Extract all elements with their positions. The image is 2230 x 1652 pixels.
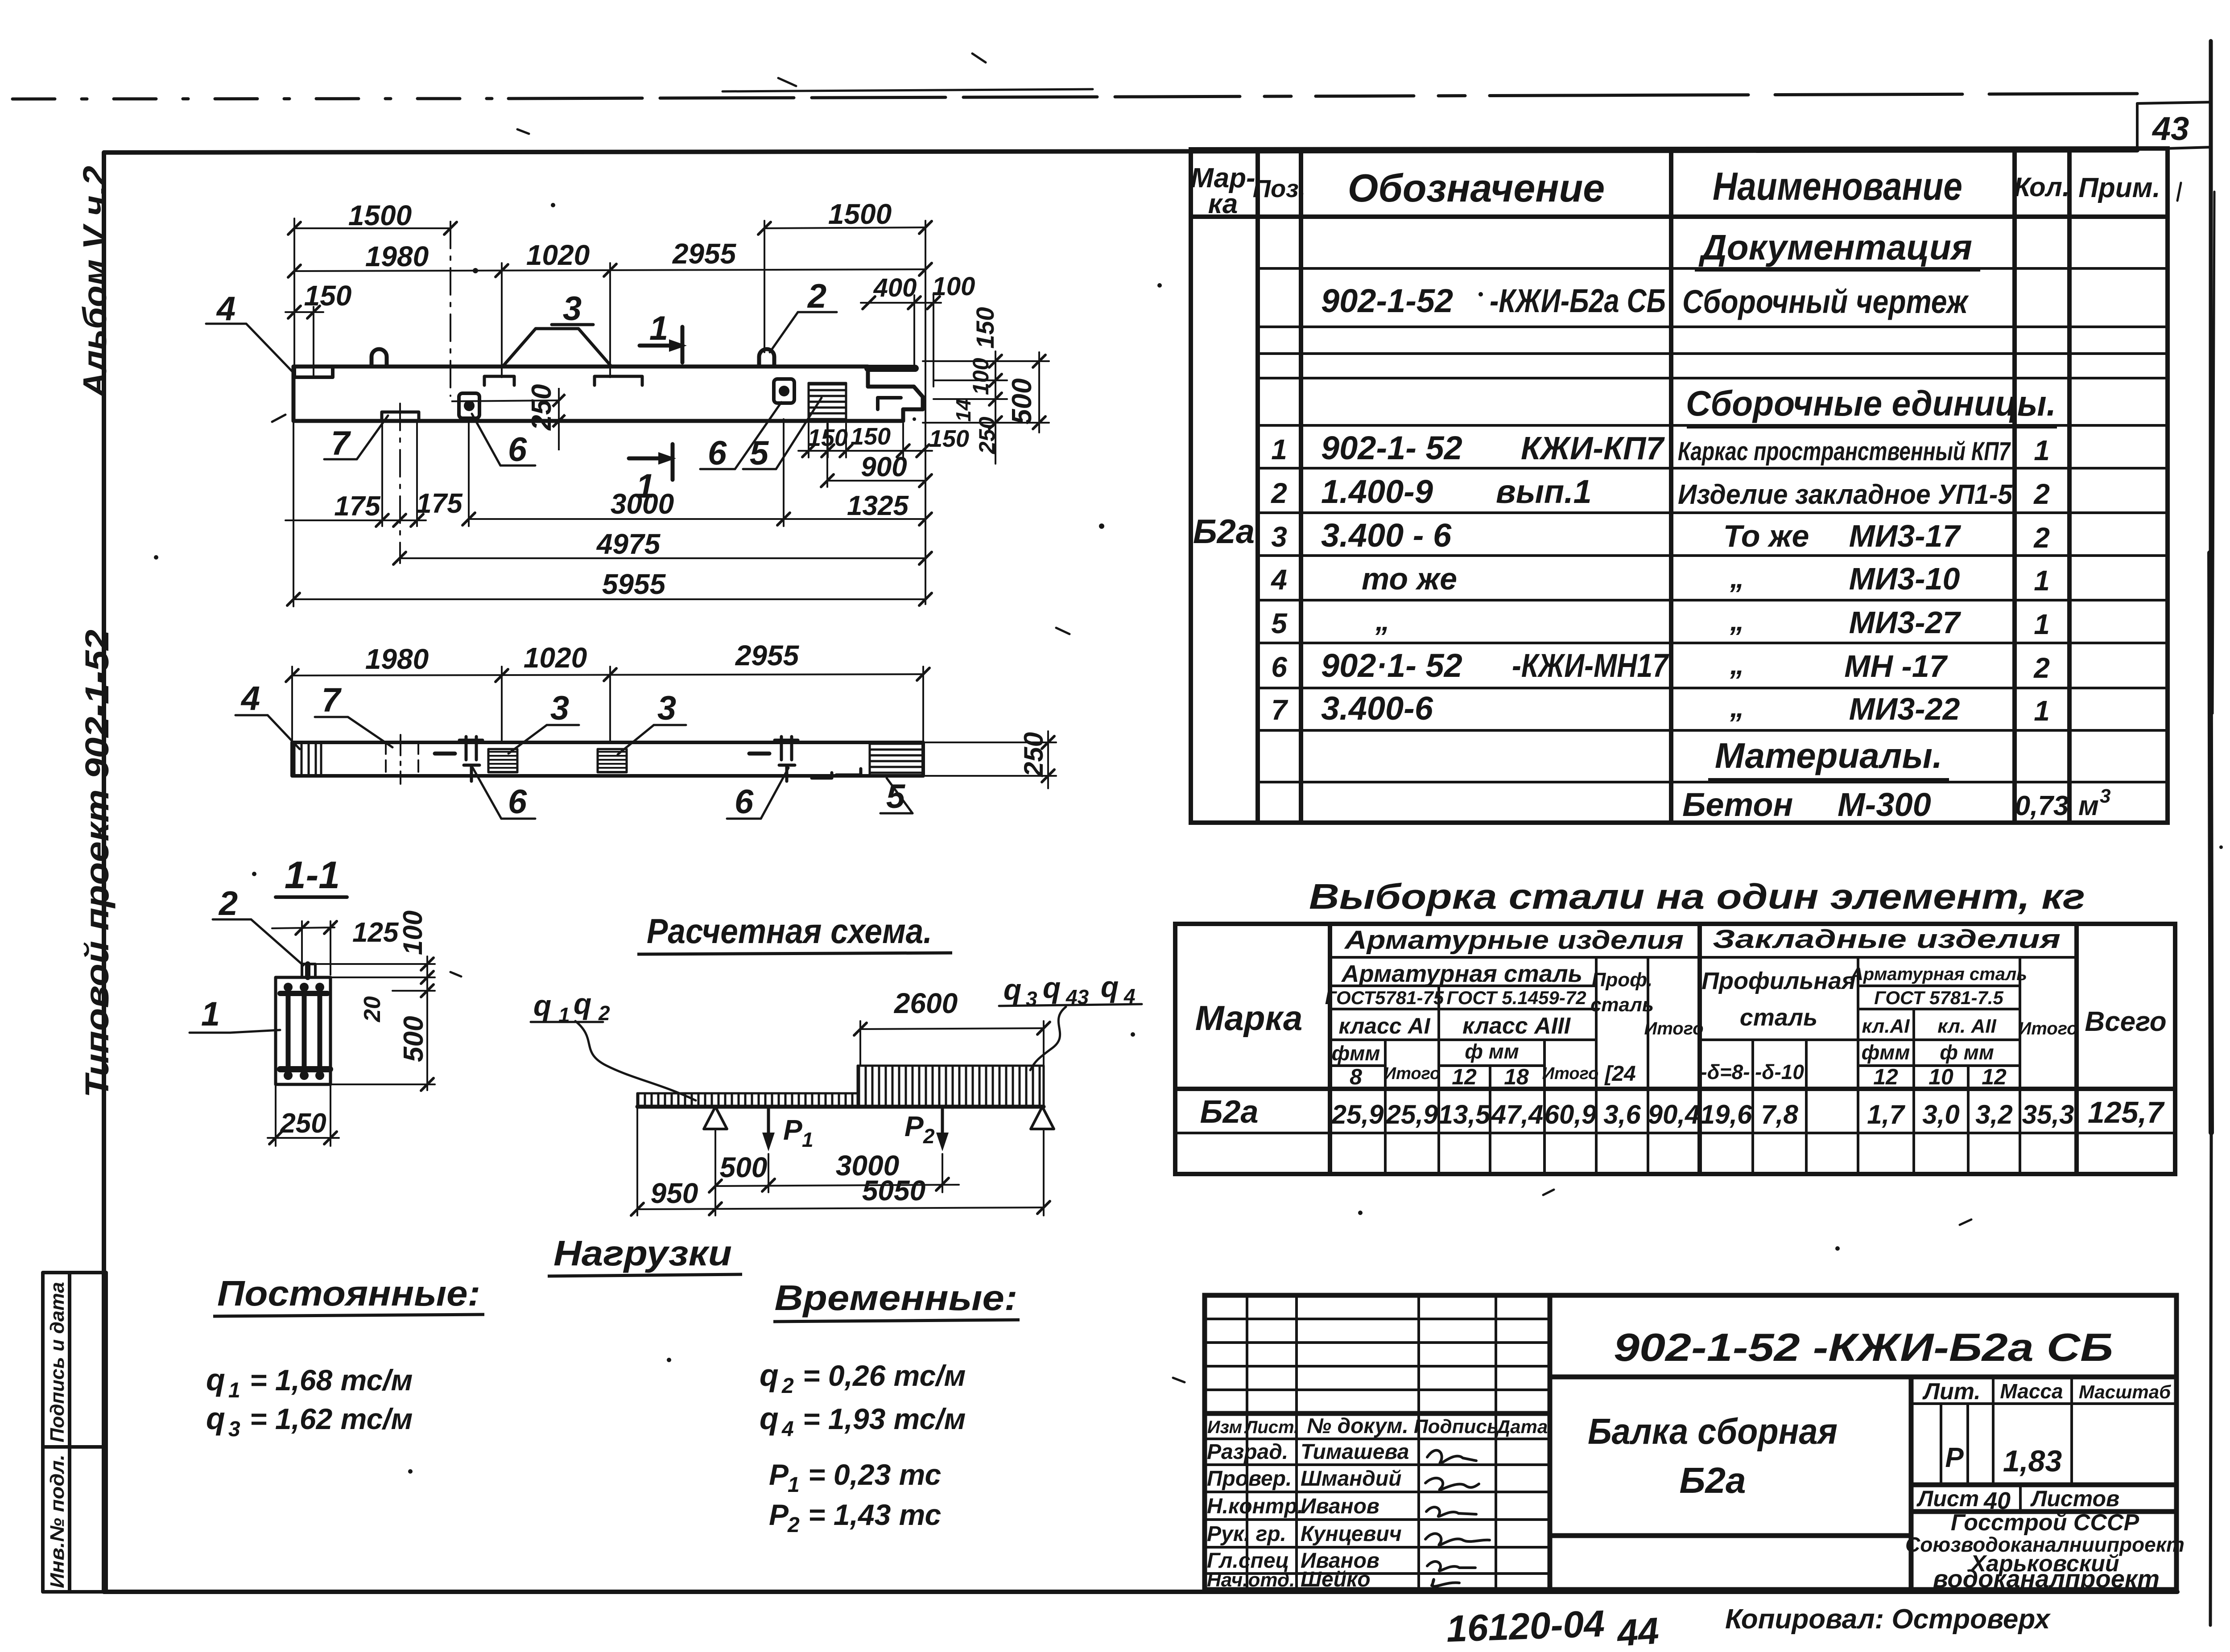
svg-text:1: 1 bbox=[802, 1128, 814, 1151]
svg-text:5: 5 bbox=[1271, 607, 1288, 639]
svg-text:1: 1 bbox=[2034, 695, 2050, 727]
svg-text:1: 1 bbox=[2034, 434, 2050, 466]
svg-text:1.400-9: 1.400-9 bbox=[1321, 473, 1433, 510]
svg-text:500: 500 bbox=[398, 1016, 429, 1062]
svg-text:Закладные изделия: Закладные изделия bbox=[1713, 925, 2061, 954]
svg-text:ГОСТ 5781-7.5: ГОСТ 5781-7.5 bbox=[1874, 987, 2003, 1008]
svg-text:= 0,23 тс: = 0,23 тс bbox=[808, 1458, 941, 1491]
dim chain 1980 1020 2955 bbox=[294, 269, 925, 271]
plate item 5 hatched (right end) bbox=[870, 742, 923, 776]
svg-text:кл.АІ: кл.АІ bbox=[1862, 1015, 1910, 1037]
svg-text:Нач.отд.: Нач.отд. bbox=[1207, 1569, 1295, 1591]
top fold dash-dot line bbox=[12, 89, 2137, 99]
svg-text:Арматурные изделия: Арматурные изделия bbox=[1344, 926, 1684, 955]
svg-text:q: q bbox=[1003, 973, 1021, 1006]
svg-text:4: 4 bbox=[240, 680, 260, 717]
section mark 1 (bottom) bbox=[629, 444, 673, 480]
small marks near item6 left bbox=[435, 752, 455, 756]
svg-text:2: 2 bbox=[781, 1374, 794, 1398]
svg-text:2: 2 bbox=[598, 1001, 610, 1025]
lifting loop left bbox=[372, 349, 387, 367]
svg-text:1: 1 bbox=[1271, 433, 1287, 466]
svg-text:2: 2 bbox=[2033, 478, 2050, 510]
svg-text:-КЖИ-Б2а СБ: -КЖИ-Б2а СБ bbox=[1490, 282, 1666, 319]
svg-text:1-1: 1-1 bbox=[285, 854, 340, 897]
svg-text:q: q bbox=[206, 1401, 225, 1436]
svg-text:500: 500 bbox=[720, 1151, 768, 1183]
plan 250 dim right bbox=[925, 731, 1056, 788]
svg-text:q: q bbox=[206, 1362, 225, 1397]
svg-text:4: 4 bbox=[1270, 564, 1287, 596]
item 6 symbol left bbox=[459, 737, 483, 781]
dims 500 3000 bbox=[715, 1131, 959, 1215]
svg-text:150: 150 bbox=[971, 307, 999, 349]
svg-text:Временные:: Временные: bbox=[775, 1278, 1018, 1318]
svg-text:Профильная: Профильная bbox=[1701, 968, 1856, 994]
leader 6 left bbox=[472, 414, 535, 466]
svg-text:Рук. гр.: Рук. гр. bbox=[1207, 1522, 1286, 1546]
svg-text:то же: то же bbox=[1362, 561, 1457, 596]
svg-text:Кол.: Кол. bbox=[2014, 172, 2069, 202]
svg-text:12: 12 bbox=[1452, 1064, 1477, 1089]
svg-text:175: 175 bbox=[334, 491, 381, 522]
dim ticks bottom bbox=[287, 474, 932, 606]
svg-text:МИ3-17: МИ3-17 bbox=[1849, 519, 1962, 553]
distributed load band right (q3 q4) bbox=[858, 1066, 1044, 1107]
svg-text:Постоянные:: Постоянные: bbox=[217, 1273, 480, 1313]
svg-text:класс АІ: класс АІ bbox=[1338, 1013, 1430, 1038]
svg-text:900: 900 bbox=[861, 452, 907, 482]
svg-text:-δ=8-: -δ=8- bbox=[1700, 1060, 1750, 1083]
svg-text:3,2: 3,2 bbox=[1975, 1100, 2012, 1129]
svg-text:Арматурная сталь: Арматурная сталь bbox=[1341, 960, 1582, 987]
leader 6 right bbox=[700, 402, 781, 469]
svg-text:-КЖИ-МН17: -КЖИ-МН17 bbox=[1512, 647, 1669, 684]
svg-text:100: 100 bbox=[398, 910, 428, 955]
leader 4 bbox=[206, 324, 294, 374]
svg-text:902-1-52 -КЖИ-Б2а СБ: 902-1-52 -КЖИ-Б2а СБ bbox=[1614, 1325, 2113, 1369]
svg-text:М-300: М-300 bbox=[1838, 786, 1931, 823]
svg-text:5: 5 bbox=[750, 434, 769, 472]
svg-text:P: P bbox=[904, 1110, 924, 1142]
svg-text:1: 1 bbox=[201, 995, 220, 1033]
svg-text:q: q bbox=[760, 1401, 779, 1436]
svg-text:0,73: 0,73 bbox=[2015, 791, 2069, 821]
svg-text:43: 43 bbox=[1065, 985, 1089, 1009]
dimension lines, bottom bbox=[285, 419, 925, 606]
svg-text:18: 18 bbox=[1504, 1064, 1529, 1089]
svg-text:„: „ bbox=[1375, 605, 1390, 637]
svg-text:4: 4 bbox=[216, 290, 235, 328]
svg-text:3: 3 bbox=[2100, 785, 2110, 807]
svg-text:Б2а: Б2а bbox=[1679, 1460, 1746, 1501]
svg-text:„: „ bbox=[1730, 605, 1744, 637]
svg-text:Расчетная схема.: Расчетная схема. bbox=[647, 911, 932, 951]
svg-text:100: 100 bbox=[968, 358, 993, 395]
svg-text:3: 3 bbox=[657, 689, 676, 727]
dims 950 5050 bbox=[637, 1107, 1044, 1215]
svg-text:400: 400 bbox=[873, 273, 917, 302]
anchor washer item 6 right bbox=[774, 379, 794, 403]
svg-text:1500: 1500 bbox=[348, 199, 412, 231]
svg-text:q: q bbox=[760, 1358, 779, 1392]
svg-text:1: 1 bbox=[2034, 608, 2050, 640]
dim 400 100 right bbox=[861, 302, 941, 304]
load P2 arrow bbox=[941, 1107, 944, 1144]
svg-text:сталь: сталь bbox=[1590, 994, 1654, 1016]
svg-text:1020: 1020 bbox=[524, 642, 587, 674]
svg-text:47,4: 47,4 bbox=[1491, 1100, 1544, 1129]
plate marks right of item5: small С plate bbox=[812, 773, 832, 778]
svg-text:Госстрой СССР: Госстрой СССР bbox=[1951, 1510, 2139, 1536]
anchor washer item 6 left bbox=[459, 393, 479, 418]
svg-text:МН -17: МН -17 bbox=[1844, 649, 1948, 684]
svg-text:1020: 1020 bbox=[526, 239, 590, 271]
svg-text:Кунцевич: Кунцевич bbox=[1301, 1522, 1402, 1546]
svg-text:Наименование: Наименование bbox=[1713, 164, 1962, 208]
svg-text:902-1- 52: 902-1- 52 bbox=[1321, 429, 1462, 466]
extension lines down bbox=[293, 421, 294, 606]
signatures (squiggles) bbox=[1425, 1450, 1490, 1586]
svg-text:-δ-10: -δ-10 bbox=[1755, 1060, 1804, 1083]
svg-text:6: 6 bbox=[508, 431, 527, 469]
svg-text:Документация: Документация bbox=[1698, 227, 1972, 267]
leader 2 section bbox=[213, 919, 303, 965]
svg-text:Б2а: Б2а bbox=[1193, 513, 1255, 551]
svg-text:Н.контр.: Н.контр. bbox=[1207, 1495, 1303, 1518]
svg-text:„: „ bbox=[1730, 648, 1744, 680]
svg-text:2955: 2955 bbox=[672, 238, 737, 270]
svg-text:10: 10 bbox=[1929, 1064, 1953, 1089]
svg-text:902-1-52: 902-1-52 bbox=[1321, 282, 1453, 319]
svg-text:Тимашева: Тимашева bbox=[1301, 1440, 1409, 1464]
svg-text:ка: ка bbox=[1208, 189, 1238, 219]
svg-text:3: 3 bbox=[1271, 521, 1287, 553]
svg-text:8: 8 bbox=[1350, 1064, 1362, 1089]
leader 2 bbox=[770, 312, 837, 352]
page right border (rough) bbox=[2210, 41, 2214, 1625]
svg-text:19,6: 19,6 bbox=[1700, 1100, 1752, 1129]
left margin table (Подпись и дата / Инв.№ подл.) bbox=[43, 1273, 106, 1592]
svg-text:q: q bbox=[1043, 971, 1061, 1004]
section title underline bbox=[276, 895, 347, 899]
svg-text:13,5: 13,5 bbox=[1438, 1100, 1491, 1129]
svg-text:150: 150 bbox=[929, 425, 969, 452]
svg-text:5955: 5955 bbox=[602, 568, 666, 600]
svg-text:1,83: 1,83 bbox=[2003, 1444, 2062, 1478]
svg-text:Материалы.: Материалы. bbox=[1715, 736, 1942, 775]
svg-text:Итого: Итого bbox=[1542, 1064, 1598, 1083]
dim 150 left bbox=[285, 311, 323, 313]
svg-text:1: 1 bbox=[636, 467, 655, 505]
svg-text:ГОСТ5781-75: ГОСТ5781-75 bbox=[1325, 987, 1444, 1008]
item 3 hatched plate right bbox=[598, 749, 627, 772]
item 6 symbol right bbox=[775, 737, 798, 781]
leader 4 plan bbox=[235, 715, 300, 749]
dim 125 bbox=[272, 921, 334, 975]
svg-text:2955: 2955 bbox=[735, 639, 800, 672]
svg-text:3: 3 bbox=[550, 689, 569, 727]
svg-text:ГОСТ 5.1459-72: ГОСТ 5.1459-72 bbox=[1446, 987, 1586, 1008]
leader 7 plan bbox=[315, 717, 392, 747]
distributed load band left (q1 q2) bbox=[637, 1093, 858, 1107]
svg-text:35,3: 35,3 bbox=[2022, 1100, 2074, 1129]
svg-text:2: 2 bbox=[218, 885, 238, 923]
svg-text:Балка сборная: Балка сборная bbox=[1588, 1411, 1838, 1452]
svg-text:Лист.: Лист. bbox=[1244, 1417, 1299, 1437]
svg-text:Выборка стали на один элем: Выборка стали на один элемент, кг bbox=[1309, 877, 2085, 916]
svg-text:5050: 5050 bbox=[862, 1174, 925, 1207]
svg-text:= 1,68 тс/м: = 1,68 тс/м bbox=[250, 1364, 413, 1397]
right vertical dim chain 100 20 500 bbox=[308, 956, 435, 1090]
load P1 arrow bbox=[767, 1107, 770, 1144]
svg-text:150: 150 bbox=[304, 280, 352, 312]
dim 1500 right bbox=[764, 227, 925, 228]
svg-text:3,6: 3,6 bbox=[1603, 1100, 1641, 1129]
svg-text:Типовой проект 902-1-52: Типовой проект 902-1-52 bbox=[78, 630, 116, 1098]
embedded plate item 4 (left end) bbox=[294, 367, 333, 377]
svg-text:250: 250 bbox=[975, 416, 999, 454]
beam elevation outline bbox=[293, 367, 923, 421]
scan speckles bbox=[154, 203, 2223, 1474]
svg-text:950: 950 bbox=[651, 1177, 698, 1209]
svg-text:Шейко: Шейко bbox=[1301, 1568, 1371, 1591]
svg-text:= 1,93 тс/м: = 1,93 тс/м bbox=[803, 1402, 966, 1435]
svg-text:Инв.№ подл.: Инв.№ подл. bbox=[46, 1454, 68, 1588]
svg-text:7: 7 bbox=[1271, 694, 1288, 726]
svg-text:м: м bbox=[2078, 791, 2099, 821]
svg-text:МИ3-22: МИ3-22 bbox=[1849, 692, 1960, 726]
lifting loop right bbox=[759, 349, 774, 367]
svg-text:МИ3-10: МИ3-10 bbox=[1849, 561, 1960, 596]
svg-text:1: 1 bbox=[649, 309, 668, 347]
section mark 1 (top) bbox=[640, 327, 682, 363]
extension lines bbox=[293, 218, 295, 367]
svg-text:Сборочный чертеж: Сборочный чертеж bbox=[1682, 283, 1969, 320]
q1 q2 leader squiggle bbox=[575, 1021, 696, 1100]
svg-text:Масштаб: Масштаб bbox=[2079, 1381, 2171, 1402]
svg-text:90,4: 90,4 bbox=[1648, 1100, 1700, 1129]
rebar cage: vertical bars bbox=[288, 985, 320, 1075]
svg-text:фмм: фмм bbox=[1862, 1041, 1910, 1064]
svg-text:Итого: Итого bbox=[1384, 1064, 1440, 1083]
svg-text:Арматурная сталь: Арматурная сталь bbox=[1850, 964, 2027, 984]
svg-text:6: 6 bbox=[708, 434, 727, 472]
svg-text:3,0: 3,0 bbox=[1922, 1100, 1959, 1129]
centre dash-dot line of item 7 bbox=[399, 404, 401, 563]
leader 3 plan right bbox=[618, 725, 686, 754]
svg-text:кл. АІІ: кл. АІІ bbox=[1937, 1015, 1996, 1037]
svg-text:Иванов: Иванов bbox=[1301, 1495, 1379, 1518]
svg-text:Альбом V ч.2: Альбом V ч.2 bbox=[76, 166, 113, 399]
spec table grid bbox=[1191, 148, 2168, 823]
svg-text:водоканалпроект: водоканалпроект bbox=[1933, 1565, 2160, 1593]
svg-text:14: 14 bbox=[952, 399, 975, 422]
svg-text:= 0,26 тс/м: = 0,26 тс/м bbox=[803, 1359, 966, 1392]
svg-text:q: q bbox=[1101, 970, 1119, 1003]
svg-text:Б2а: Б2а bbox=[1200, 1094, 1258, 1130]
item 7 dash-dot centre line bbox=[400, 735, 401, 784]
svg-text:1,7: 1,7 bbox=[1867, 1100, 1905, 1129]
svg-text:4: 4 bbox=[781, 1417, 794, 1441]
dim 150 150 under hatched plate and 150 at right notch bbox=[798, 424, 932, 457]
svg-text:6: 6 bbox=[1271, 651, 1287, 683]
svg-text:МИ3-27: МИ3-27 bbox=[1849, 605, 1962, 640]
svg-text:60,9: 60,9 bbox=[1544, 1100, 1597, 1129]
svg-text:вып.1: вып.1 bbox=[1496, 473, 1592, 510]
svg-text:3: 3 bbox=[228, 1417, 240, 1441]
svg-text:Итого: Итого bbox=[1644, 1019, 1703, 1038]
leader 3 plan left bbox=[508, 725, 579, 754]
leader 6 plan left bbox=[473, 768, 535, 819]
svg-text:5: 5 bbox=[886, 778, 906, 816]
svg-text:КЖИ-КП7: КЖИ-КП7 bbox=[1521, 431, 1665, 466]
svg-text:Бетон: Бетон bbox=[1682, 786, 1793, 823]
svg-text:ф мм: ф мм bbox=[1940, 1041, 1994, 1064]
svg-text:Разрад.: Разрад. bbox=[1207, 1440, 1288, 1464]
svg-text:2: 2 bbox=[807, 277, 826, 315]
svg-text:250: 250 bbox=[526, 384, 557, 431]
svg-text:12: 12 bbox=[1873, 1064, 1898, 1089]
svg-text:44: 44 bbox=[1615, 1610, 1660, 1652]
svg-text:150: 150 bbox=[808, 424, 848, 451]
svg-text:7: 7 bbox=[322, 681, 342, 719]
svg-text:Обозначение: Обозначение bbox=[1348, 166, 1605, 210]
rebar dots bbox=[284, 983, 324, 1080]
svg-text:20: 20 bbox=[359, 996, 385, 1022]
dim 1500 left bbox=[294, 227, 450, 229]
drawing frame bbox=[104, 150, 2137, 152]
svg-text:100: 100 bbox=[932, 272, 975, 301]
svg-text:P: P bbox=[769, 1458, 789, 1491]
svg-text:q: q bbox=[574, 987, 591, 1020]
svg-text:Прим.: Прим. bbox=[2078, 173, 2160, 203]
svg-text:4975: 4975 bbox=[596, 528, 661, 560]
leader 6 plan right bbox=[727, 768, 789, 819]
section outline bbox=[276, 977, 330, 1084]
svg-text:25,9: 25,9 bbox=[1386, 1100, 1438, 1129]
svg-text:3: 3 bbox=[1026, 987, 1037, 1010]
item 3 hatched plate left bbox=[488, 749, 517, 772]
bent bar item 3 (trapezoid) bbox=[503, 329, 611, 367]
svg-text:Марка: Марка bbox=[1195, 998, 1303, 1038]
svg-text:1: 1 bbox=[2034, 564, 2050, 597]
svg-text:„: „ bbox=[1730, 691, 1744, 723]
svg-text:2600: 2600 bbox=[894, 987, 958, 1019]
scheme beam line bbox=[637, 1105, 1044, 1109]
svg-text:1325: 1325 bbox=[847, 490, 909, 521]
svg-text:12: 12 bbox=[1982, 1064, 2007, 1089]
steel table grid bbox=[1175, 924, 2175, 1174]
svg-text:Итого: Итого bbox=[2018, 1019, 2077, 1038]
svg-text:Листов: Листов bbox=[2030, 1486, 2119, 1511]
plan dimension line 1980 1020 2955 bbox=[292, 667, 923, 742]
sheet number box 43 bbox=[2137, 102, 2211, 103]
centre dash-dot line at x=1010 bbox=[450, 222, 451, 396]
dim line for 250 near washer bbox=[451, 400, 559, 401]
svg-text:1980: 1980 bbox=[365, 240, 429, 272]
svg-text:P: P bbox=[769, 1498, 789, 1531]
svg-text:25,9: 25,9 bbox=[1331, 1100, 1384, 1129]
dim ticks top bbox=[288, 221, 940, 318]
svg-text:250: 250 bbox=[1019, 732, 1049, 777]
rebar protrusion on top bbox=[302, 964, 315, 977]
svg-text:ф мм: ф мм bbox=[1465, 1040, 1519, 1063]
svg-text:Лит.: Лит. bbox=[1922, 1379, 1981, 1405]
svg-text:16120-04: 16120-04 bbox=[1445, 1603, 1605, 1650]
plate item 7 on bottom edge bbox=[382, 412, 419, 421]
leader 3 bbox=[552, 323, 593, 326]
svg-text:То же: То же bbox=[1723, 519, 1809, 553]
С-plate under trapezoid right bbox=[595, 376, 642, 385]
svg-text:Изм: Изм bbox=[1207, 1417, 1242, 1437]
svg-text:„: „ bbox=[1730, 562, 1744, 594]
svg-text:2: 2 bbox=[923, 1125, 935, 1148]
top and bottom transverse bars bbox=[280, 991, 327, 996]
svg-text:1: 1 bbox=[228, 1379, 240, 1402]
plan outline bbox=[292, 742, 923, 776]
svg-text:7: 7 bbox=[331, 424, 351, 462]
svg-text:150: 150 bbox=[851, 423, 891, 450]
leader 5 plan bbox=[880, 778, 913, 813]
leader 5 bbox=[743, 398, 822, 469]
dimension lines, top bbox=[285, 218, 941, 604]
svg-text:902·1- 52: 902·1- 52 bbox=[1321, 647, 1462, 684]
svg-text:q: q bbox=[533, 989, 551, 1022]
dim 250 below section bbox=[268, 1084, 339, 1146]
svg-text:Масса: Масса bbox=[2000, 1380, 2063, 1403]
svg-text:3: 3 bbox=[563, 290, 582, 328]
svg-text:= 1,43 тс: = 1,43 тс bbox=[808, 1498, 941, 1531]
svg-text:3.400 - 6: 3.400 - 6 bbox=[1321, 517, 1452, 554]
svg-text:6: 6 bbox=[508, 783, 527, 821]
q3 q4 leader squiggle bbox=[1030, 1007, 1066, 1070]
svg-text:Нагрузки: Нагрузки bbox=[553, 1233, 732, 1273]
svg-text:250: 250 bbox=[280, 1108, 326, 1139]
leader 1 section bbox=[190, 1030, 280, 1033]
q labels underline bbox=[531, 1021, 603, 1023]
svg-text:Сборочные единицы.: Сборочные единицы. bbox=[1686, 383, 2056, 423]
svg-text:4: 4 bbox=[1123, 985, 1136, 1008]
svg-text:Всего: Всего bbox=[2085, 1006, 2166, 1037]
svg-text:фмм: фмм bbox=[1332, 1042, 1380, 1065]
support right bbox=[1031, 1107, 1054, 1129]
svg-text:= 1,62 тс/м: = 1,62 тс/м bbox=[250, 1402, 413, 1435]
svg-text:Поз.: Поз. bbox=[1253, 174, 1306, 202]
svg-text:3.400-6: 3.400-6 bbox=[1321, 690, 1433, 727]
svg-text:[24: [24 bbox=[1604, 1062, 1635, 1086]
svg-text:P: P bbox=[783, 1114, 802, 1146]
svg-text:сталь: сталь bbox=[1740, 1004, 1817, 1031]
embedded plate МН-17 (right end, thick bar) bbox=[868, 365, 915, 372]
svg-text:43: 43 bbox=[2152, 110, 2189, 147]
svg-text:Подпись: Подпись bbox=[1414, 1416, 1499, 1438]
svg-text:125,7: 125,7 bbox=[2088, 1096, 2165, 1129]
svg-text:Шмандий: Шмандий bbox=[1301, 1467, 1402, 1491]
svg-text:2: 2 bbox=[2033, 522, 2050, 554]
svg-text:2: 2 bbox=[1271, 477, 1287, 509]
svg-text:7,8: 7,8 bbox=[1761, 1100, 1798, 1129]
svg-text:1500: 1500 bbox=[828, 198, 892, 230]
small corner plate bottom right bbox=[878, 398, 901, 409]
С-plate under trapezoid left bbox=[484, 376, 514, 385]
svg-text:Копировал: Островерх: Копировал: Островерх bbox=[1725, 1604, 2051, 1635]
svg-text:125: 125 bbox=[352, 917, 399, 948]
support left bbox=[704, 1107, 727, 1129]
svg-text:1980: 1980 bbox=[365, 643, 429, 675]
svg-text:Изделие закладное УП1-5: Изделие закладное УП1-5 bbox=[1678, 479, 2013, 510]
svg-text:Каркас пространственный КП7: Каркас пространственный КП7 bbox=[1678, 437, 2011, 466]
